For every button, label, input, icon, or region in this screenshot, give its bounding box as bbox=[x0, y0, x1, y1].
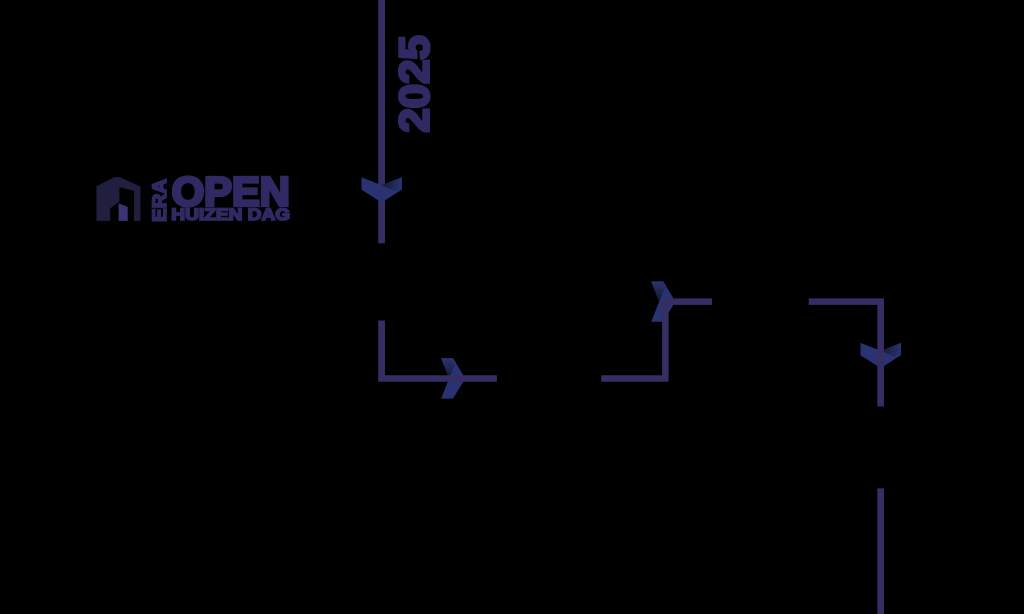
logo house outer (dark) bbox=[97, 177, 141, 221]
wire segment C : second horizontal + riser up bbox=[601, 298, 668, 381]
wire segment A : top vertical line bbox=[378, 0, 385, 243]
svg-text:HUIZEN DAG: HUIZEN DAG bbox=[171, 206, 290, 224]
arrow chevron 4 (down-pointing, on right vertical wire) bbox=[861, 343, 901, 368]
svg-text:2025: 2025 bbox=[390, 35, 437, 132]
wire segment E : top horizontal + right vertical down bbox=[809, 298, 884, 406]
wire segment F : bottom right vertical line bbox=[877, 488, 884, 614]
wire segment B : middle vertical + first horizontal bbox=[378, 321, 497, 382]
svg-text:ERA: ERA bbox=[150, 179, 171, 222]
logo house door (light) bbox=[119, 203, 128, 221]
arrow chevron 3 (right-pointing, at riser corner) bbox=[651, 281, 675, 321]
arrow chevron 2 (right-pointing, on first horizontal wire) bbox=[441, 358, 465, 398]
wire segment D : short top horizontal after riser bbox=[669, 298, 712, 305]
arrow chevron 1 (down-pointing, on top vertical wire, above the line) bbox=[361, 177, 401, 202]
